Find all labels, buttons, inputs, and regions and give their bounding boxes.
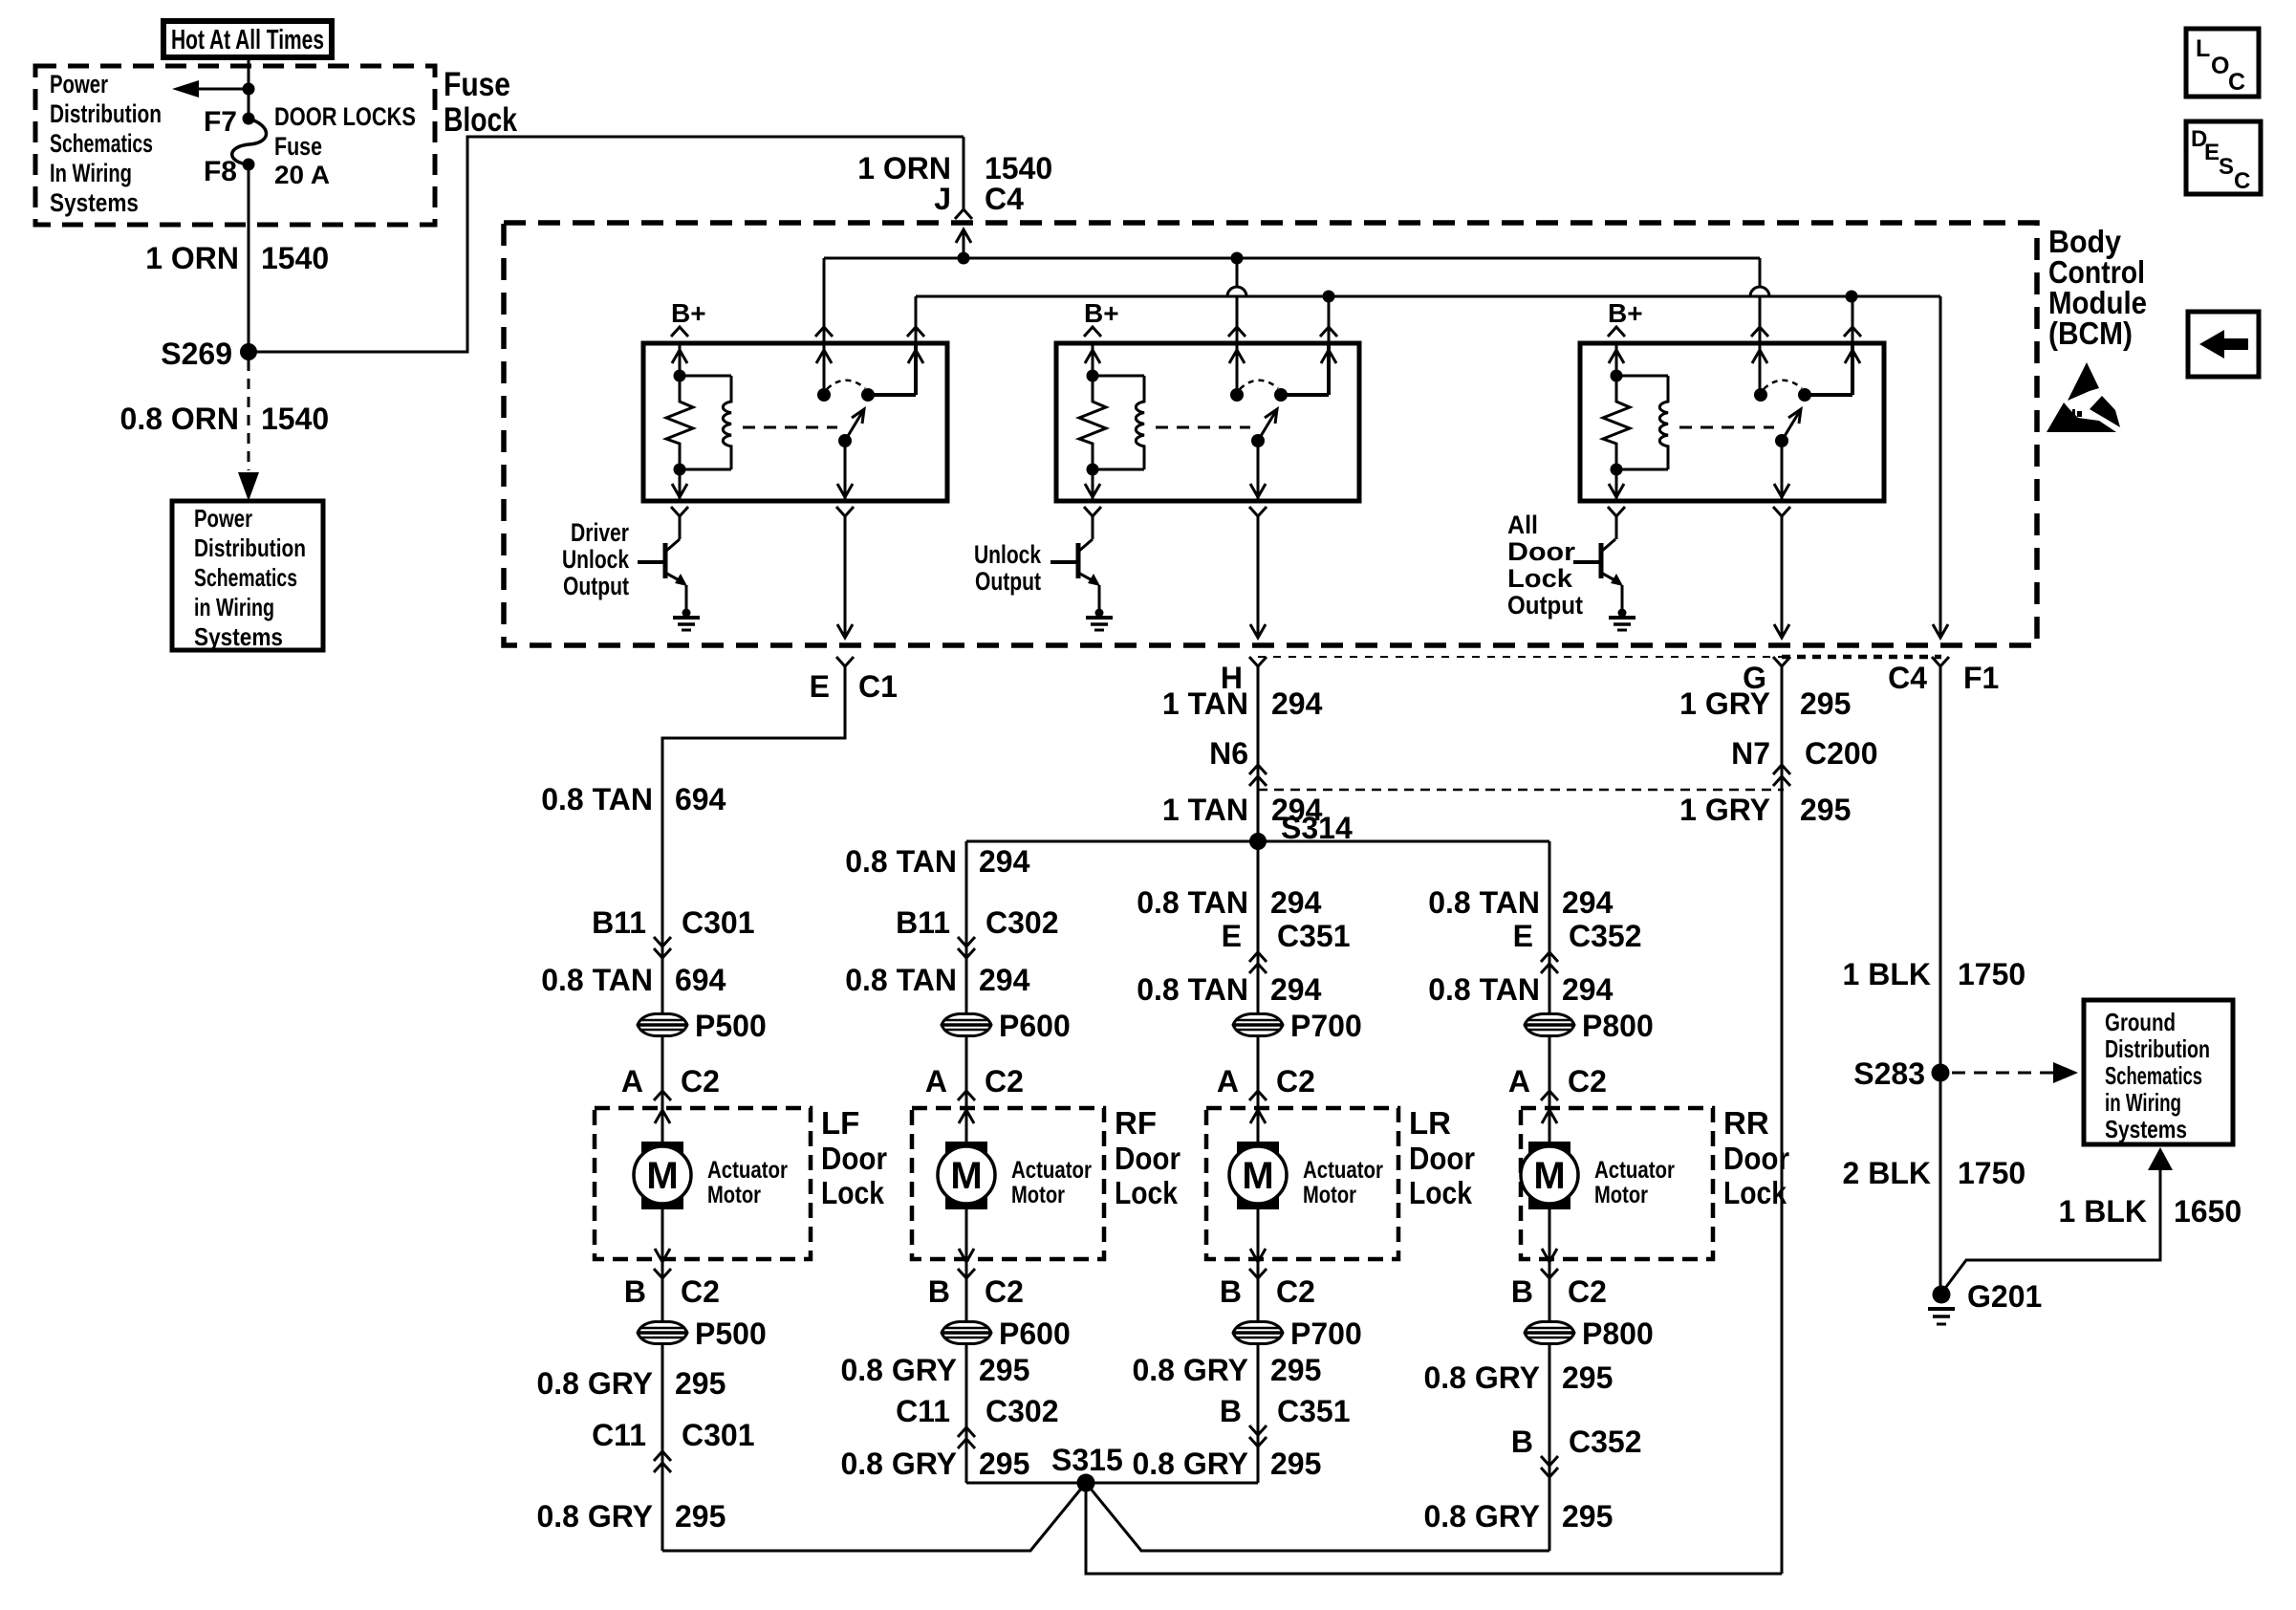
- svg-text:E: E: [2204, 140, 2220, 165]
- svg-text:Schematics: Schematics: [194, 563, 297, 592]
- wire: BCM E over to LF door lock: [662, 672, 845, 1551]
- node: junction to power distribution arrow: [243, 83, 255, 96]
- svg-text:0.8 TAN: 0.8 TAN: [1428, 885, 1540, 920]
- connector C200 dashed line: [1258, 789, 1784, 792]
- svg-text:Distribution: Distribution: [50, 99, 162, 128]
- splice S269: [240, 343, 257, 360]
- transistor base lead: [1051, 560, 1078, 564]
- svg-text:1650: 1650: [2174, 1194, 2242, 1229]
- svg-text:S315: S315: [1051, 1443, 1123, 1477]
- svg-text:294: 294: [1270, 885, 1322, 920]
- relay switch: armature: [1775, 434, 1788, 447]
- LF Door Lock box (dashed): [595, 1108, 811, 1259]
- button box: LOC: [2186, 29, 2259, 97]
- pin B connector C2: [959, 1249, 974, 1262]
- svg-text:RF: RF: [1115, 1105, 1157, 1141]
- actuator motor M: [959, 1110, 974, 1123]
- svg-text:0.8 GRY: 0.8 GRY: [1132, 1447, 1248, 1481]
- svg-text:Driver: Driver: [571, 518, 629, 547]
- module box: Body Control Module (BCM), dashed: [504, 223, 2037, 645]
- svg-text:M: M: [1242, 1155, 1273, 1197]
- svg-text:B+: B+: [1084, 298, 1119, 328]
- pin B connector C2: [1542, 1249, 1557, 1262]
- svg-text:1 ORN: 1 ORN: [857, 151, 951, 185]
- svg-text:Power: Power: [50, 70, 108, 98]
- relay switch: normally-closed contact to B+: [1274, 388, 1288, 402]
- svg-text:295: 295: [1270, 1447, 1321, 1481]
- relay coil (inductor): [1093, 375, 1144, 378]
- svg-text:P800: P800: [1582, 1009, 1654, 1043]
- transistor base bar: [1076, 543, 1081, 578]
- svg-text:295: 295: [1562, 1360, 1613, 1395]
- svg-text:0.8 GRY: 0.8 GRY: [1423, 1360, 1540, 1395]
- svg-text:Lock: Lock: [821, 1175, 885, 1210]
- relay box: [1580, 343, 1884, 501]
- fuse: DOOR LOCKS Fuse 20 A: [232, 119, 267, 164]
- grommet P500: [638, 1014, 687, 1036]
- RR Door Lock box (dashed): [1521, 1108, 1713, 1259]
- svg-text:Systems: Systems: [2105, 1115, 2187, 1143]
- relay switch: travel arc (dashed): [1240, 381, 1278, 389]
- pin B connector C2: [655, 1249, 670, 1262]
- wire: relay output down to BCM boundary: [1257, 516, 1260, 638]
- svg-text:C2: C2: [1276, 1064, 1315, 1099]
- node F7: [243, 113, 255, 125]
- svg-text:Ground: Ground: [2105, 1008, 2176, 1036]
- svg-text:C4: C4: [1888, 661, 1927, 695]
- svg-text:Fuse: Fuse: [274, 132, 322, 161]
- svg-text:A: A: [1508, 1064, 1530, 1099]
- svg-text:1540: 1540: [985, 151, 1052, 185]
- relay switch: armature: [1251, 434, 1265, 447]
- svg-text:Motor: Motor: [707, 1182, 761, 1208]
- relay coil resistor: [679, 343, 682, 376]
- svg-text:Motor: Motor: [1594, 1182, 1648, 1208]
- actuator motor M: [655, 1110, 670, 1123]
- svg-text:295: 295: [675, 1499, 726, 1534]
- svg-text:F1: F1: [1963, 661, 1999, 695]
- svg-text:C301: C301: [682, 905, 755, 940]
- arrow: to Power Distribution Schematics (left): [198, 88, 249, 91]
- actuator motor M: [1542, 1110, 1557, 1123]
- svg-text:C302: C302: [986, 905, 1059, 940]
- transistor emitter with arrow: [1078, 573, 1097, 583]
- svg-text:O: O: [2211, 53, 2229, 79]
- svg-text:A: A: [621, 1064, 643, 1099]
- GRY return bus into S315: [966, 1482, 1258, 1485]
- transistor collector lead: [665, 539, 680, 552]
- svg-text:B: B: [928, 1274, 950, 1309]
- svg-text:294: 294: [979, 844, 1030, 879]
- wire: LR branch down: [1257, 841, 1260, 1483]
- svg-text:C4: C4: [985, 182, 1024, 216]
- wire: RR branch down: [1549, 841, 1551, 1551]
- grommet P500: [638, 1322, 687, 1344]
- ground symbol: [1095, 609, 1104, 618]
- svg-text:0.8 GRY: 0.8 GRY: [536, 1499, 653, 1534]
- svg-text:Schematics: Schematics: [50, 129, 153, 158]
- LR Door Lock box (dashed): [1206, 1108, 1398, 1259]
- ESD sensitivity symbol: [2068, 362, 2099, 401]
- splice S283: [1932, 1064, 1950, 1082]
- RF Door Lock box (dashed): [912, 1108, 1104, 1259]
- svg-text:Actuator: Actuator: [1594, 1157, 1675, 1184]
- svg-text:Actuator: Actuator: [1303, 1157, 1383, 1184]
- svg-text:C11: C11: [896, 1394, 950, 1428]
- svg-text:295: 295: [1800, 686, 1851, 721]
- svg-text:C2: C2: [1568, 1274, 1607, 1309]
- svg-text:DOOR LOCKS: DOOR LOCKS: [274, 102, 416, 131]
- svg-text:Distribution: Distribution: [2105, 1034, 2210, 1063]
- svg-text:1 BLK: 1 BLK: [2059, 1194, 2147, 1229]
- svg-text:1 TAN: 1 TAN: [1162, 793, 1248, 827]
- svg-text:P500: P500: [695, 1316, 767, 1351]
- transistor emitter with arrow: [1601, 573, 1620, 583]
- ground symbol: [682, 609, 691, 618]
- connector line C200/C1 fine dashed: [1258, 656, 1782, 658]
- reference box: Power Distribution Schematics in Wiring Systems: [172, 501, 323, 650]
- svg-text:P500: P500: [695, 1009, 767, 1043]
- svg-text:C200: C200: [1805, 736, 1878, 771]
- svg-text:0.8 TAN: 0.8 TAN: [1137, 885, 1248, 920]
- svg-text:(BCM): (BCM): [2048, 315, 2133, 351]
- TAN distribution bus from S314: [966, 840, 1549, 843]
- svg-text:F8: F8: [204, 156, 237, 187]
- wire: S315 to BCM G return: [1086, 1483, 1782, 1574]
- transistor base lead: [1573, 560, 1601, 564]
- svg-text:P600: P600: [999, 1009, 1071, 1043]
- svg-text:1540: 1540: [261, 402, 329, 436]
- svg-text:C2: C2: [1568, 1064, 1607, 1099]
- svg-text:B: B: [624, 1274, 646, 1309]
- relay box: [643, 343, 947, 501]
- connector chevron at BCM exit: [1773, 657, 1790, 666]
- svg-text:Lock: Lock: [1507, 564, 1573, 593]
- relay switch: normally-closed contact to B+: [1798, 388, 1811, 402]
- svg-text:LF: LF: [821, 1105, 859, 1141]
- wire: S315 to LF return: [662, 1483, 1086, 1551]
- svg-text:Power: Power: [194, 504, 252, 533]
- svg-text:0.8 GRY: 0.8 GRY: [536, 1366, 653, 1401]
- relay coil resistor: [1092, 343, 1094, 376]
- relay switch: common contact: [817, 388, 831, 402]
- fuse block dashed box: [35, 66, 435, 225]
- node: bus2-relay2 junction: [1323, 291, 1335, 303]
- wire: bus2 down to BCM pin F1: [1939, 296, 1942, 638]
- svg-text:Motor: Motor: [1011, 1182, 1065, 1208]
- node: bus2-relay3 junction: [1846, 291, 1858, 303]
- wire: switch output down: [844, 441, 847, 501]
- svg-text:0.8 ORN: 0.8 ORN: [120, 402, 239, 436]
- svg-text:295: 295: [1562, 1499, 1613, 1534]
- svg-text:B+: B+: [671, 298, 706, 328]
- svg-text:0.8 GRY: 0.8 GRY: [1423, 1499, 1540, 1534]
- svg-text:Motor: Motor: [1303, 1182, 1356, 1208]
- connector chevrons below relay: [671, 507, 688, 516]
- svg-text:Hot At All Times: Hot At All Times: [171, 25, 324, 55]
- svg-text:0.8 GRY: 0.8 GRY: [840, 1447, 957, 1481]
- B+ bus upper (feeds relay commons): [824, 257, 1760, 260]
- svg-text:0.8 TAN: 0.8 TAN: [845, 844, 957, 879]
- svg-text:S283: S283: [1853, 1056, 1925, 1091]
- node F8: [243, 159, 255, 171]
- svg-text:1 GRY: 1 GRY: [1679, 793, 1770, 827]
- wire: bus1 to relay3 common (hops bus2): [1759, 258, 1762, 287]
- svg-text:Output: Output: [1507, 591, 1583, 620]
- svg-text:295: 295: [979, 1353, 1029, 1387]
- svg-text:P700: P700: [1290, 1009, 1362, 1043]
- svg-text:C1: C1: [858, 669, 898, 704]
- svg-text:0.8 TAN: 0.8 TAN: [541, 782, 653, 816]
- svg-text:Actuator: Actuator: [1011, 1157, 1092, 1184]
- svg-text:295: 295: [1270, 1353, 1321, 1387]
- svg-text:0.8 GRY: 0.8 GRY: [840, 1353, 957, 1387]
- svg-text:1540: 1540: [261, 241, 329, 275]
- svg-text:C2: C2: [985, 1274, 1024, 1309]
- svg-text:Door: Door: [821, 1141, 887, 1176]
- grommet P600: [942, 1322, 991, 1344]
- svg-text:in Wiring: in Wiring: [194, 593, 274, 621]
- svg-text:E: E: [1222, 919, 1242, 953]
- relay coil resistor: [1615, 343, 1618, 376]
- svg-text:B: B: [1511, 1274, 1533, 1309]
- svg-text:P700: P700: [1290, 1316, 1362, 1351]
- wire: BCM F1 down to G201: [1939, 672, 1942, 1293]
- grommet P700: [1233, 1014, 1283, 1036]
- svg-text:C302: C302: [986, 1394, 1059, 1428]
- svg-text:1750: 1750: [1958, 957, 2025, 991]
- svg-text:Systems: Systems: [194, 622, 283, 651]
- svg-text:All: All: [1507, 511, 1538, 539]
- svg-text:694: 694: [675, 963, 726, 997]
- relay switch: travel arc (dashed): [827, 381, 865, 389]
- svg-text:Lock: Lock: [1115, 1175, 1179, 1210]
- svg-text:1 TAN: 1 TAN: [1162, 686, 1248, 721]
- wire: ground distribution to G201, 1 BLK 1650: [2148, 1147, 2173, 1170]
- svg-text:Output: Output: [975, 567, 1041, 596]
- svg-text:C2: C2: [1276, 1274, 1315, 1309]
- svg-text:294: 294: [1562, 972, 1614, 1007]
- relay switch: common contact: [1230, 388, 1244, 402]
- wire: S269 right and up to BCM feed: [249, 137, 964, 352]
- wire: RF branch down: [965, 841, 968, 1483]
- svg-text:M: M: [646, 1155, 678, 1197]
- svg-text:0.8 TAN: 0.8 TAN: [541, 963, 653, 997]
- svg-text:B11: B11: [592, 905, 646, 940]
- wire: into BCM, pin J C4: [963, 137, 965, 209]
- button box: DESC: [2186, 121, 2261, 194]
- svg-text:J: J: [934, 182, 951, 216]
- svg-text:RR: RR: [1723, 1105, 1769, 1141]
- actuator motor M: [1250, 1110, 1266, 1123]
- svg-text:P800: P800: [1582, 1316, 1654, 1351]
- svg-text:A: A: [1217, 1064, 1239, 1099]
- relay coil (inductor): [1616, 375, 1668, 378]
- svg-text:E: E: [1513, 919, 1533, 953]
- svg-text:Distribution: Distribution: [194, 533, 306, 562]
- svg-text:B: B: [1511, 1425, 1533, 1459]
- svg-text:Unlock: Unlock: [974, 540, 1042, 569]
- transistor base bar: [1599, 543, 1604, 578]
- mechanical link (dashed) coil to armature: [743, 426, 837, 429]
- svg-text:B: B: [1220, 1394, 1242, 1428]
- svg-text:0.8 TAN: 0.8 TAN: [1137, 972, 1248, 1007]
- svg-text:B: B: [1220, 1274, 1242, 1309]
- grommet P800: [1525, 1014, 1574, 1036]
- node: bus1-J junction: [958, 252, 970, 265]
- svg-text:Door: Door: [1409, 1141, 1475, 1176]
- wire: bus1 to relay1 common: [823, 258, 826, 395]
- svg-text:B11: B11: [896, 905, 950, 940]
- svg-text:294: 294: [1562, 885, 1614, 920]
- svg-text:L: L: [2196, 35, 2210, 62]
- svg-text:P600: P600: [999, 1316, 1071, 1351]
- svg-text:694: 694: [675, 782, 726, 816]
- svg-text:M: M: [1533, 1155, 1565, 1197]
- transistor base lead: [638, 560, 665, 564]
- arrow: down to Power Distribution Schematics box: [238, 472, 259, 501]
- svg-text:E: E: [810, 669, 830, 704]
- svg-text:294: 294: [979, 963, 1030, 997]
- wire: battery feed down from Hot At All Times: [248, 57, 250, 119]
- connector line C4 bold dotted: [1782, 655, 1941, 660]
- transistor emitter with arrow: [665, 573, 684, 583]
- svg-text:294: 294: [1270, 972, 1322, 1007]
- wire: S315 to RR return: [1086, 1483, 1549, 1551]
- svg-text:1750: 1750: [1958, 1156, 2025, 1190]
- svg-text:Output: Output: [563, 572, 629, 600]
- mechanical link (dashed) coil to armature: [1156, 426, 1250, 429]
- wire: relay output down to BCM boundary: [844, 516, 847, 638]
- button box: back arrow: [2188, 312, 2259, 377]
- svg-text:Lock: Lock: [1409, 1175, 1473, 1210]
- svg-text:G201: G201: [1967, 1279, 2042, 1314]
- ground G201: [1933, 1286, 1951, 1304]
- connector chevrons below relay: [1608, 507, 1625, 516]
- svg-text:in Wiring: in Wiring: [2105, 1088, 2181, 1117]
- transistor base bar: [663, 543, 668, 578]
- grommet P800: [1525, 1322, 1574, 1344]
- B+ bus lower (switch outputs): [916, 295, 1940, 298]
- grommet P700: [1233, 1322, 1283, 1344]
- svg-text:Door: Door: [1115, 1141, 1180, 1176]
- label box: Hot At All Times: [163, 21, 332, 57]
- svg-text:Unlock: Unlock: [562, 545, 630, 574]
- wire: relay output down to BCM boundary: [1781, 516, 1784, 638]
- svg-text:N7: N7: [1731, 736, 1770, 771]
- relay switch: armature: [838, 434, 852, 447]
- svg-text:295: 295: [675, 1366, 726, 1401]
- svg-text:C351: C351: [1277, 919, 1351, 953]
- svg-text:In Wiring: In Wiring: [50, 159, 132, 187]
- svg-text:295: 295: [1800, 793, 1851, 827]
- svg-text:1 GRY: 1 GRY: [1679, 686, 1770, 721]
- svg-text:295: 295: [979, 1447, 1029, 1481]
- svg-text:20 A: 20 A: [274, 161, 330, 189]
- mechanical link (dashed) coil to armature: [1679, 426, 1774, 429]
- svg-text:C11: C11: [592, 1418, 646, 1452]
- wire: fuse F8 down to S269: [248, 164, 250, 352]
- svg-text:0.8 TAN: 0.8 TAN: [1428, 972, 1540, 1007]
- transistor collector lead: [1601, 539, 1615, 552]
- svg-text:C2: C2: [985, 1064, 1024, 1099]
- svg-text:C301: C301: [682, 1418, 755, 1452]
- svg-text:B+: B+: [1608, 298, 1643, 328]
- svg-text:C352: C352: [1569, 919, 1642, 953]
- wire: switch output down: [1781, 441, 1784, 501]
- svg-text:Systems: Systems: [50, 188, 139, 217]
- wire: 0.8 ORN 1540 dashed to power distribution: [248, 360, 250, 470]
- svg-text:F7: F7: [204, 106, 237, 138]
- svg-text:0.8 GRY: 0.8 GRY: [1132, 1353, 1248, 1387]
- connector chevron at BCM exit: [1249, 657, 1267, 666]
- svg-text:2 BLK: 2 BLK: [1843, 1156, 1931, 1190]
- relay switch: common contact: [1754, 388, 1767, 402]
- svg-text:S: S: [2219, 154, 2234, 180]
- svg-text:1 ORN: 1 ORN: [145, 241, 239, 275]
- relay switch: normally-closed contact to B+: [861, 388, 875, 402]
- svg-text:C351: C351: [1277, 1394, 1351, 1428]
- relay coil (inductor): [680, 375, 731, 378]
- connector chevron at BCM exit: [836, 657, 854, 666]
- wire: bus1 to relay2 common (hops bus2): [1236, 258, 1239, 287]
- pin B connector C2: [1250, 1249, 1266, 1262]
- svg-text:LR: LR: [1409, 1105, 1451, 1141]
- svg-text:A: A: [925, 1064, 947, 1099]
- svg-text:294: 294: [1271, 686, 1323, 721]
- svg-text:C2: C2: [681, 1274, 720, 1309]
- relay box: [1056, 343, 1359, 501]
- node: bus1-relay2 junction: [1231, 252, 1244, 265]
- svg-text:Door: Door: [1723, 1141, 1789, 1176]
- wire: BCM G down to bottom bus: [1781, 672, 1784, 1574]
- svg-text:N6: N6: [1209, 736, 1248, 771]
- connector chevron at BCM exit: [1932, 657, 1949, 666]
- svg-text:S269: S269: [161, 337, 232, 371]
- svg-text:C352: C352: [1569, 1425, 1642, 1459]
- svg-text:C2: C2: [681, 1064, 720, 1099]
- ground symbol: [1618, 609, 1627, 618]
- reference box: Ground Distribution Schematics in Wiring Systems: [2084, 1000, 2233, 1144]
- svg-text:1 BLK: 1 BLK: [1843, 957, 1931, 991]
- svg-text:M: M: [950, 1155, 982, 1197]
- svg-text:Door: Door: [1507, 537, 1576, 566]
- svg-text:C: C: [2234, 168, 2250, 194]
- svg-text:Fuse: Fuse: [444, 66, 510, 103]
- svg-text:Block: Block: [444, 101, 517, 139]
- svg-text:Actuator: Actuator: [707, 1157, 788, 1184]
- svg-text:Lock: Lock: [1723, 1175, 1787, 1210]
- connector chevrons below relay: [1084, 507, 1101, 516]
- svg-text:C: C: [2228, 69, 2245, 96]
- wire: switch output down: [1257, 441, 1260, 501]
- relay switch: travel arc (dashed): [1764, 381, 1802, 389]
- dashed link: S283 to ground distribution: [1952, 1072, 2055, 1075]
- svg-text:Schematics: Schematics: [2105, 1061, 2202, 1090]
- transistor collector lead: [1078, 539, 1093, 552]
- svg-text:0.8 TAN: 0.8 TAN: [845, 963, 957, 997]
- grommet P600: [942, 1014, 991, 1036]
- wire: BCM H to S314: [1257, 672, 1260, 841]
